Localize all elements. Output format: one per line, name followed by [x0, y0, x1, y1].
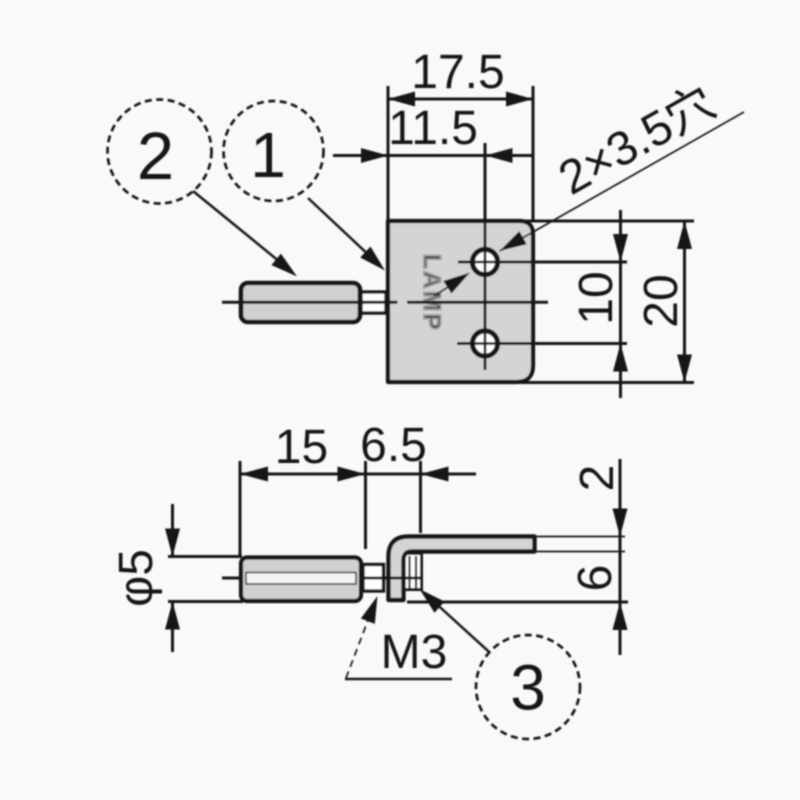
svg-text:LAMP: LAMP	[418, 254, 445, 332]
svg-text:17.5: 17.5	[411, 46, 504, 99]
svg-text:20: 20	[635, 274, 688, 327]
stub (M3 screw neck, top view)	[361, 292, 386, 313]
svg-text:φ5: φ5	[110, 549, 163, 607]
node: horizontal centerline of top hole	[458, 261, 627, 264]
bracket (bent plate, side view)	[389, 537, 535, 601]
dimension 6.5	[360, 419, 476, 533]
svg-text:2: 2	[571, 465, 624, 492]
svg-text:M3: M3	[381, 626, 448, 679]
dimension 15	[240, 421, 421, 555]
balloon 2	[108, 100, 298, 277]
svg-text:6.5: 6.5	[360, 419, 427, 472]
svg-text:6: 6	[569, 565, 622, 592]
dimension 20	[507, 221, 694, 383]
wire: centerline left of rod	[222, 577, 262, 580]
label M3	[345, 596, 452, 679]
node: horizontal centerline of bottom hole	[457, 342, 627, 345]
svg-text:15: 15	[275, 421, 328, 474]
plate P1 (mounting plate, top view)	[388, 221, 533, 382]
wire: arm extension lines (2mm plate)	[535, 536, 626, 538]
balloon 3	[420, 589, 581, 739]
nut / clip behind bracket	[404, 554, 422, 590]
hole H2 (bottom 3.5 hole)	[472, 331, 497, 356]
svg-text:10: 10	[570, 271, 623, 324]
dimension 11.5	[333, 102, 533, 163]
svg-text:3: 3	[510, 652, 546, 724]
dimension 10	[570, 210, 628, 398]
thread core band	[246, 573, 356, 585]
label 2x3.5 holes	[500, 76, 745, 251]
wire: centerline through stub and nut	[362, 577, 423, 580]
hole H1 (top 3.5 hole)	[472, 249, 497, 274]
dimension 2 and 6	[407, 459, 628, 655]
wire: centerline inside plate	[407, 301, 548, 304]
dimension phi5	[110, 504, 243, 652]
rod R (threaded cylinder, top view)	[241, 283, 360, 322]
stub (M3 screw, side view)	[363, 565, 384, 592]
rod R (side view)	[241, 558, 361, 602]
svg-text:2: 2	[137, 119, 174, 194]
dimension 17.5	[388, 46, 533, 220]
arrow: second hole pointer	[434, 273, 470, 297]
svg-text:1: 1	[250, 119, 286, 191]
svg-text:11.5: 11.5	[388, 102, 478, 155]
wire: horizontal centerline of rod (left segment)	[222, 301, 548, 304]
balloon 1	[224, 101, 386, 271]
node: vertical centerline through holes	[484, 143, 487, 370]
